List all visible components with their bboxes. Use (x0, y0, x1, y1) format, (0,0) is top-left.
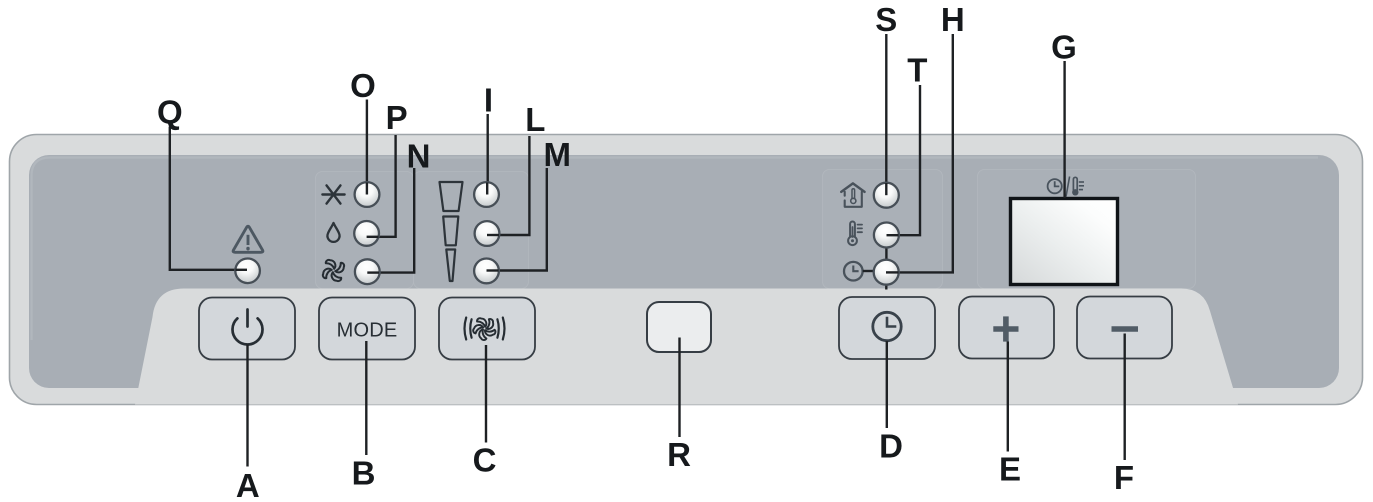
svg-text:L: L (525, 101, 545, 138)
LED P (354, 221, 379, 246)
callout line P (367, 135, 396, 237)
line into LED O (366, 183, 368, 195)
connector clock icon to LED D (863, 270, 874, 272)
svg-text:O: O (350, 67, 376, 104)
LED O (355, 182, 380, 207)
LED N (355, 259, 380, 284)
indicator group box (display) (978, 170, 1196, 289)
callout line A (246, 345, 248, 467)
callout line T (887, 85, 921, 235)
svg-text:E: E (999, 451, 1021, 488)
callout line F (1123, 334, 1125, 461)
power icon (233, 310, 263, 345)
display window G (1011, 199, 1118, 285)
callout line B (365, 341, 367, 455)
indicator group box (right LEDs) (823, 170, 943, 289)
inner panel bevel highlight (32, 158, 1319, 341)
svg-text:D: D (879, 427, 903, 464)
plus icon (993, 316, 1018, 341)
fan button icon (465, 318, 505, 342)
minus button F (1077, 297, 1172, 359)
callout line G (1063, 61, 1065, 198)
indicator group box (mode icons) (316, 172, 414, 289)
fan icon (323, 260, 344, 281)
svg-text:MODE: MODE (337, 320, 398, 342)
house icon (841, 183, 864, 206)
callout line I (487, 114, 489, 190)
power button A (199, 298, 295, 360)
line into LED M (487, 269, 499, 271)
thermometer icon (848, 221, 862, 245)
fan speed bar 3 (446, 250, 455, 282)
LED S (874, 183, 899, 208)
line into LED S (885, 183, 887, 195)
line into LED I (486, 183, 488, 195)
inner dark panel (29, 155, 1339, 388)
svg-text:N: N (407, 138, 431, 175)
button strip notch (135, 289, 1238, 405)
warning triangle (233, 226, 263, 252)
callout line M (487, 168, 547, 271)
callout line H (886, 34, 953, 272)
callout line L (487, 136, 529, 235)
callout line S (885, 34, 887, 190)
svg-text:I: I (484, 81, 493, 118)
svg-text:Q: Q (157, 94, 183, 131)
LED D (874, 260, 899, 285)
snowflake icon (322, 185, 344, 203)
svg-text:M: M (543, 136, 571, 173)
svg-text:F: F (1114, 459, 1134, 496)
line into LED P (367, 236, 379, 238)
svg-text:S: S (875, 1, 897, 38)
svg-text:H: H (941, 1, 965, 38)
svg-text:B: B (352, 455, 376, 492)
callout line O (366, 100, 368, 191)
line into LED L (487, 234, 499, 236)
svg-text:R: R (667, 436, 691, 473)
small clock icon (844, 262, 863, 281)
svg-text:C: C (473, 442, 497, 479)
LED I (474, 182, 499, 207)
clock/thermo icon above display (1048, 177, 1084, 197)
callout line N (367, 168, 414, 273)
mode button B (319, 298, 415, 360)
fan speed bar 2 (443, 217, 458, 246)
fan speed bar 1 (440, 182, 463, 211)
callout line R (678, 338, 680, 438)
timer button icon (873, 312, 901, 340)
connector LED T to LED D (885, 246, 887, 261)
droplet icon (327, 223, 339, 242)
LED Q (235, 259, 260, 284)
callout line E (1007, 342, 1009, 452)
svg-text:T: T (907, 52, 927, 89)
callout line Q (170, 127, 247, 270)
minus icon (1112, 326, 1139, 332)
LED T (874, 223, 899, 248)
svg-text:A: A (236, 467, 260, 502)
stub below LED D (885, 285, 887, 290)
svg-text:G: G (1051, 29, 1077, 66)
LED M (474, 259, 499, 284)
fan button C (439, 298, 535, 360)
LED L (475, 221, 500, 246)
callout line C (485, 345, 487, 443)
line into LED D (886, 271, 899, 273)
outer panel body (10, 135, 1363, 405)
blank button R (647, 302, 711, 352)
line into LED T (887, 234, 899, 236)
callout line D (886, 341, 888, 428)
plus button E (959, 297, 1054, 359)
line into LED Q (236, 269, 248, 271)
svg-text:P: P (386, 99, 408, 136)
line into LED N (367, 271, 379, 273)
indicator group box (fan bars) (414, 172, 529, 289)
timer button D (839, 297, 935, 359)
